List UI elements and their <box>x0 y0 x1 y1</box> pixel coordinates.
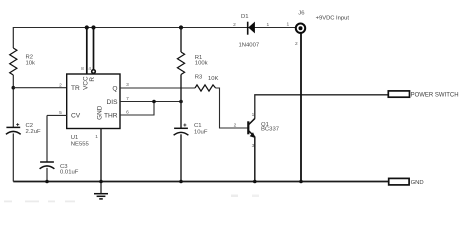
wire C1 to rail <box>180 134 182 181</box>
svg-text:TR: TR <box>71 85 80 92</box>
inversion bubble on RESET <box>92 70 96 74</box>
wire R1 to C1 <box>180 75 182 129</box>
svg-text:2: 2 <box>234 122 237 128</box>
wire J6 pin2 to ground rail <box>300 34 302 182</box>
node C1 rail <box>179 180 183 184</box>
svg-text:2.2uF: 2.2uF <box>26 129 41 135</box>
svg-text:J6: J6 <box>298 10 305 16</box>
node TR junction <box>12 86 16 90</box>
wire bottom ground rail <box>13 181 388 183</box>
node DIS THR junction <box>152 100 156 104</box>
node emitter rail <box>253 180 257 184</box>
svg-text:10uF: 10uF <box>194 130 208 136</box>
svg-text:1: 1 <box>286 21 289 27</box>
svg-text:10k: 10k <box>26 61 36 67</box>
svg-text:R3: R3 <box>195 75 203 81</box>
svg-text:8: 8 <box>81 66 84 72</box>
diode D1 1N4007 <box>247 22 249 35</box>
wire emitter down <box>254 137 256 182</box>
svg-text:THR: THR <box>104 113 118 120</box>
connector tag GND <box>389 178 409 185</box>
svg-text:1: 1 <box>266 22 269 28</box>
wire R3 to base <box>216 88 248 128</box>
connector J6 barrel jack <box>296 24 305 33</box>
wire DIS pin 7 <box>120 101 181 103</box>
svg-text:4: 4 <box>88 66 91 72</box>
svg-text:6: 6 <box>126 109 129 115</box>
svg-text:GND: GND <box>96 105 103 120</box>
node DIS R1 C1 junction <box>179 100 183 104</box>
wire Q pin 3 output <box>120 87 195 89</box>
svg-text:U1: U1 <box>71 135 79 141</box>
wire CV to C3 <box>46 115 48 162</box>
resistor R1 <box>177 52 184 75</box>
svg-text:2: 2 <box>233 22 236 28</box>
node C3 rail <box>45 180 49 184</box>
capacitor C1 <box>174 124 189 136</box>
capacitor C3 <box>40 162 55 169</box>
svg-text:+9VDC Input: +9VDC Input <box>316 16 350 22</box>
IC U1 NE555 <box>67 74 120 129</box>
node GND pin to rail <box>99 180 103 184</box>
svg-text:C2: C2 <box>26 123 34 129</box>
wire left rail mid segment <box>12 75 14 127</box>
svg-text:DIS: DIS <box>107 99 119 106</box>
wire top rail +9V <box>13 27 295 29</box>
resistor R3 <box>195 85 216 91</box>
svg-text:C1: C1 <box>194 123 202 129</box>
svg-text:10K: 10K <box>208 76 219 82</box>
svg-text:7: 7 <box>126 96 129 102</box>
faint cropped caption remnants (artifact in source image) <box>4 195 259 203</box>
ground <box>94 182 108 199</box>
node VCC on rail <box>85 25 89 29</box>
svg-text:R: R <box>89 77 96 82</box>
svg-text:2: 2 <box>295 41 298 47</box>
wire left rail upper segment <box>12 27 14 48</box>
transistor Q1 BC337 <box>248 118 255 137</box>
resistor R2 <box>10 48 17 75</box>
wire TR pin 2 <box>13 87 66 89</box>
wire left rail lower segment <box>12 133 14 181</box>
wire VCC pin 8 <box>86 28 88 75</box>
svg-text:3: 3 <box>126 82 129 88</box>
svg-text:BC337: BC337 <box>261 127 279 133</box>
svg-text:100k: 100k <box>195 60 208 66</box>
wire RESET pin 4 <box>93 28 95 70</box>
svg-text:NE555: NE555 <box>71 142 90 148</box>
wire GND pin 1 <box>100 129 102 182</box>
node R1 top on rail <box>179 25 183 29</box>
wire collector up and to switch <box>255 95 388 119</box>
wire C3 to rail <box>46 168 48 182</box>
svg-text:0.01uF: 0.01uF <box>60 169 79 175</box>
wire rail to R1 <box>180 28 182 53</box>
wire CV pin 5 <box>47 114 67 116</box>
capacitor C2 <box>6 123 21 134</box>
connector tag POWER SWITCH <box>388 91 409 97</box>
svg-text:POWER SWITCH: POWER SWITCH <box>411 92 459 98</box>
node J6 ground <box>299 180 303 184</box>
svg-text:2: 2 <box>59 82 62 88</box>
svg-text:1: 1 <box>95 134 98 140</box>
svg-text:GND: GND <box>411 180 424 186</box>
wire THR pin 6 <box>120 102 154 116</box>
emitter arrow <box>250 132 256 138</box>
svg-text:Q: Q <box>112 85 117 92</box>
svg-text:D1: D1 <box>241 14 249 20</box>
svg-text:CV: CV <box>71 113 81 120</box>
svg-text:5: 5 <box>59 110 62 116</box>
node RESET on rail <box>91 25 95 29</box>
svg-text:1N4007: 1N4007 <box>239 43 260 49</box>
